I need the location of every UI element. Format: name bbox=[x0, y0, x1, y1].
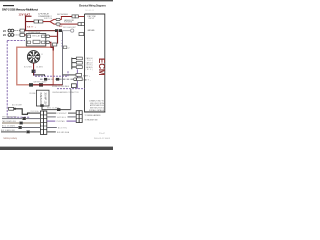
label above row 1 bbox=[31, 110, 40, 113]
svg-text:ACC SOCKET: ACC SOCKET bbox=[12, 104, 22, 107]
wire from relay lower pill elbow down bbox=[50, 42, 51, 47]
black elbow wire to right bbox=[34, 75, 45, 77]
svg-text:PUR/WHT: PUR/WHT bbox=[58, 113, 67, 115]
svg-text:BATT -: BATT - bbox=[84, 79, 91, 82]
wire row 3 bottom bbox=[2, 120, 76, 124]
svg-text:SWITCH: SWITCH bbox=[44, 18, 53, 20]
svg-text:INPUT: INPUT bbox=[89, 18, 96, 20]
rotated text inside fuse block bbox=[39, 93, 46, 105]
label right of round connector bbox=[41, 54, 43, 56]
wire: red to fork bbox=[43, 21, 50, 22]
wire row B dashed lead bbox=[14, 34, 20, 36]
gray vertical from harness line down bbox=[70, 89, 71, 110]
footer right small upper text bbox=[99, 133, 105, 135]
wire maroon vertical drop right bbox=[57, 31, 58, 44]
wire row B into relay bbox=[24, 34, 26, 35]
svg-text:2X: 2X bbox=[3, 30, 6, 33]
ECM label mid bbox=[88, 30, 96, 32]
svg-text:GROUND: GROUND bbox=[88, 30, 96, 32]
purple boundary top stub bbox=[7, 40, 25, 42]
purple dashed boundary U bbox=[35, 71, 68, 77]
svg-text:PUR: PUR bbox=[60, 40, 62, 48]
relay contact label bbox=[33, 35, 42, 38]
connector symbol near gray drop bbox=[63, 46, 69, 49]
dashed wire to batt minus bbox=[40, 78, 74, 80]
wire from relay upper pill to vertical bbox=[50, 36, 57, 37]
wire from fuse block bottom bbox=[42, 106, 71, 110]
svg-text:ENGINE HARNESS CONNECTOR: ENGINE HARNESS CONNECTOR bbox=[53, 91, 80, 94]
svg-text:BLK/YEL: BLK/YEL bbox=[58, 127, 67, 129]
inline connector at bottom of maroon drop bbox=[53, 43, 57, 46]
wire: top stub bbox=[25, 16, 32, 17]
faint mark under header right bbox=[85, 10, 94, 12]
footer left text bbox=[3, 138, 17, 140]
title: DN7-2 S1B Mercury Multifunction bbox=[2, 7, 38, 11]
wire row 2 bottom bbox=[2, 115, 76, 120]
svg-text:F1 FUSE: F1 FUSE bbox=[30, 93, 37, 95]
svg-text:240-05-12: 240-05-12 bbox=[85, 10, 94, 12]
CAN pin row 2 bbox=[76, 61, 93, 66]
red label 12V BATT bbox=[19, 12, 31, 16]
svg-text:BATTERY CABLE: BATTERY CABLE bbox=[34, 81, 48, 84]
header text right: Electrical Wiring Diagrams bbox=[79, 4, 107, 7]
label above lower feed wire (2 lines) bbox=[64, 19, 75, 24]
pin pair at ECM lower feed bbox=[78, 23, 84, 26]
black elbow wire inside purple box bbox=[16, 109, 30, 115]
wire: mid stub to pins bbox=[25, 21, 35, 22]
fuse block F1 box bbox=[36, 90, 49, 106]
svg-text:CAN LO: CAN LO bbox=[86, 62, 94, 65]
purple left harness boundary vertical bbox=[6, 41, 8, 118]
wire: lower feed to ECM pin bbox=[60, 24, 78, 25]
label above key feed wire bbox=[57, 14, 69, 16]
pin pair at ECM key feed bbox=[72, 15, 78, 18]
blocks on dashed wire bbox=[44, 78, 59, 81]
svg-text:(BLK): (BLK) bbox=[86, 69, 93, 71]
purple vertical drop to harness line bbox=[76, 69, 79, 88]
svg-text:TO HELM KEY SW: TO HELM KEY SW bbox=[85, 120, 98, 122]
scan edge band bottom bbox=[0, 147, 113, 150]
label above bottom edge wire bbox=[34, 81, 48, 84]
gray vertical wire long drop bbox=[62, 31, 63, 85]
splice blocks on row A right bbox=[55, 29, 62, 32]
svg-text:J1: J1 bbox=[41, 54, 43, 56]
stub into ECM bbox=[78, 15, 84, 18]
wire: maroon vertical feed bbox=[25, 16, 26, 31]
svg-text:FOR ALL DETAILS: FOR ALL DETAILS bbox=[89, 109, 105, 112]
ECM box outline bbox=[85, 14, 105, 112]
dark top-right corner of salmon box bbox=[51, 47, 54, 50]
svg-text:Electrical Wiring Diagrams: Electrical Wiring Diagrams bbox=[79, 4, 107, 7]
harness caption under purple line bbox=[53, 91, 80, 94]
svg-text:CAN HI: CAN HI bbox=[86, 57, 94, 60]
svg-text:16 AWG: 16 AWG bbox=[36, 65, 44, 68]
relay pin lower-left bbox=[27, 41, 30, 44]
svg-text:BATT +: BATT + bbox=[83, 74, 90, 77]
svg-text:TM2351 (01JUN05): TM2351 (01JUN05) bbox=[3, 138, 17, 140]
svg-text:RELAY: RELAY bbox=[33, 35, 42, 38]
svg-text:ENGINE GROUND CABLE: ENGINE GROUND CABLE bbox=[52, 85, 70, 88]
relay K1 box bbox=[26, 34, 46, 46]
bottom connector column X1 bbox=[40, 111, 46, 134]
note lines under ECM box bbox=[85, 114, 102, 122]
wire row A tail faint bbox=[62, 29, 71, 32]
svg-text:PUR WIRE: PUR WIRE bbox=[64, 22, 73, 24]
wire bottom edge continuation to gray drop bbox=[33, 84, 63, 85]
pill connector upper-right of relay bbox=[46, 35, 50, 38]
step from top pill up to key feed bbox=[60, 17, 61, 20]
relay pin upper-right bbox=[42, 35, 45, 38]
svg-text:DN7-2 S1B Mercury Multifunct: DN7-2 S1B Mercury Multifunct bbox=[2, 7, 38, 11]
svg-text:PUR/TAN: PUR/TAN bbox=[57, 120, 66, 123]
wire row 1 bottom bbox=[30, 113, 76, 116]
svg-text:C2: C2 bbox=[67, 47, 69, 49]
svg-text:FUSE BLOCK: FUSE BLOCK bbox=[39, 93, 41, 105]
wire down from round connector bbox=[33, 63, 34, 70]
svg-text:TO VESSEL HARNESS: TO VESSEL HARNESS bbox=[85, 114, 102, 117]
svg-text:KEY SW FEED: KEY SW FEED bbox=[57, 14, 69, 16]
svg-text:BLK GND 16GA: BLK GND 16GA bbox=[57, 131, 70, 134]
relay pin upper-left bbox=[27, 35, 30, 38]
connector pins on mid wire bbox=[34, 20, 43, 23]
connector row B symbol bbox=[3, 34, 14, 38]
svg-text:GRY 16 AWG FEED: GRY 16 AWG FEED bbox=[2, 115, 18, 118]
wire row A main run bbox=[24, 30, 55, 31]
pin row 5 batt bbox=[77, 78, 91, 82]
wire stub to batt plus pin bbox=[63, 74, 77, 75]
fork twisted pair split bbox=[50, 19, 56, 24]
pin row B bbox=[20, 33, 24, 36]
ECM bottom interior text bbox=[89, 101, 105, 112]
wire row 4 bottom bbox=[2, 125, 67, 130]
pin row 4 batt bbox=[76, 74, 90, 78]
relay label above box bbox=[29, 31, 42, 34]
terminal at bottom of gray drop bbox=[72, 84, 77, 88]
tiny mark on purple line bbox=[9, 70, 11, 72]
svg-text:20 AMP 12V: 20 AMP 12V bbox=[43, 93, 46, 105]
label on ground cable bbox=[52, 85, 70, 88]
bottom connector column X2 bbox=[76, 111, 82, 123]
scan edge band top bbox=[0, 0, 113, 1]
wire: key feed to ECM bbox=[61, 16, 73, 17]
ring on batt minus wire bbox=[74, 78, 77, 81]
pin row A bbox=[20, 29, 24, 32]
ring terminal row A bbox=[71, 29, 74, 32]
red label above row A bbox=[27, 25, 37, 28]
round connector J1 rosette bbox=[27, 51, 39, 63]
pill connector lower-right of relay bbox=[46, 41, 50, 44]
wire below splice bbox=[33, 73, 34, 76]
relay coil element bbox=[33, 40, 40, 43]
label relay connector (2 lines) bbox=[38, 13, 50, 18]
salmon harness box bbox=[17, 47, 53, 85]
CAN pin row 1 bbox=[76, 57, 93, 62]
connector at fuse block bottom bbox=[40, 104, 43, 107]
purple boundary bottom edge bbox=[7, 116, 30, 118]
relay pin lower-right bbox=[42, 41, 45, 44]
label left of drop wire bbox=[24, 66, 33, 68]
connector pill bottom branch bbox=[56, 23, 60, 25]
inline splice block on drop wire bbox=[32, 70, 36, 73]
small connector inside purple box bbox=[9, 104, 22, 111]
CAN pin row 3 bbox=[76, 66, 93, 71]
harness boundary purple horizontal bbox=[57, 88, 85, 90]
svg-text:BLK/RED: BLK/RED bbox=[24, 66, 33, 68]
svg-text:ECM: ECM bbox=[97, 58, 106, 76]
svg-text:BATT +: BATT + bbox=[27, 25, 37, 28]
CAN bus vertical with stubs bbox=[72, 58, 77, 70]
svg-text:GRY/BLU: GRY/BLU bbox=[57, 117, 67, 119]
label above that wire bbox=[47, 107, 60, 110]
connector pill top branch bbox=[56, 18, 60, 20]
svg-text:RED 10 AWG BATT: RED 10 AWG BATT bbox=[63, 26, 76, 29]
purple vertical label text bbox=[60, 40, 62, 48]
red micro label under pill bbox=[58, 25, 64, 28]
svg-text:BLK 16 AWG GND: BLK 16 AWG GND bbox=[1, 129, 16, 132]
label above fork bbox=[44, 16, 53, 20]
label left of fuse block bbox=[30, 93, 37, 95]
footer right text bbox=[94, 138, 110, 140]
label above row A tail bbox=[63, 26, 76, 29]
pin at ECM left edge low bbox=[79, 33, 84, 36]
ECM vertical red text bbox=[97, 58, 106, 76]
header rule left bbox=[3, 5, 14, 6]
svg-text:240-05-12 0605: 240-05-12 0605 bbox=[94, 138, 110, 140]
blocks on salmon box bottom edge bbox=[29, 83, 43, 86]
connector row A symbol bbox=[3, 29, 14, 33]
svg-text:2X: 2X bbox=[3, 34, 6, 37]
ECM label inside top (2 lines) bbox=[88, 16, 96, 20]
ECM box bottom edge thick bbox=[85, 111, 106, 112]
blocks on that wire bbox=[57, 108, 60, 111]
wire row A dashed lead bbox=[14, 30, 20, 32]
svg-text:SHIELD: SHIELD bbox=[86, 67, 94, 69]
svg-text:PN=47: PN=47 bbox=[99, 133, 105, 135]
label right of drop wire bbox=[36, 65, 44, 68]
wire row 5 bottom bbox=[1, 129, 70, 134]
